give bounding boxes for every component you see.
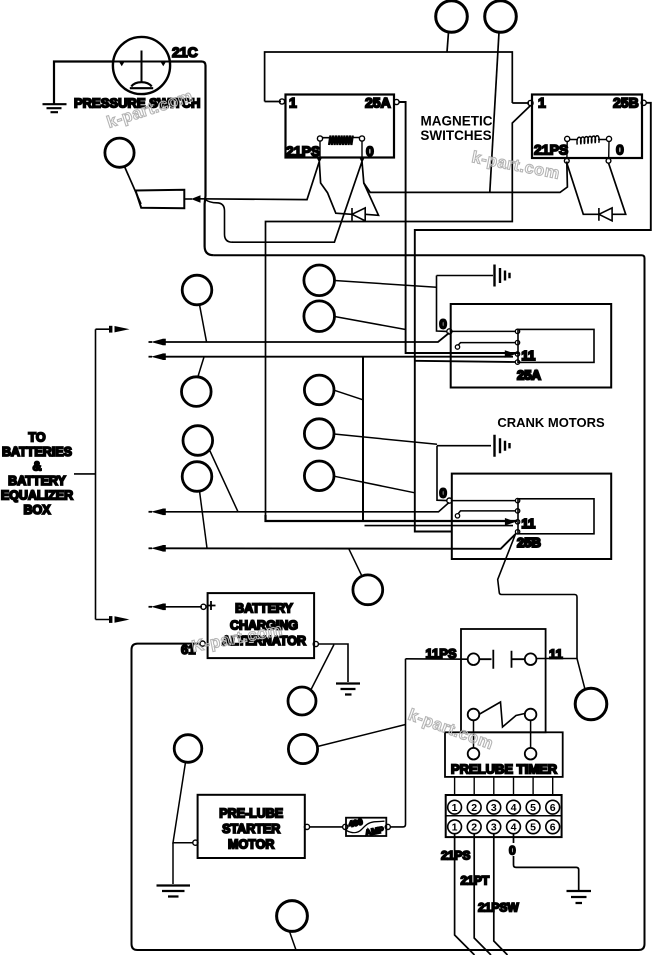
bracket tick to text bbox=[74, 473, 96, 475]
crank motor 25A outer box bbox=[451, 304, 612, 388]
K2 terminal 25B (right) bbox=[641, 100, 646, 105]
wire CQ to boundary bbox=[290, 932, 297, 951]
svg-text:BOX: BOX bbox=[23, 503, 51, 517]
connector circle CP (above motor) bbox=[174, 735, 202, 763]
K2 terminal 1 (left) bbox=[528, 100, 533, 105]
svg-text:1: 1 bbox=[452, 802, 458, 814]
relay lower right pin bbox=[525, 709, 537, 721]
wire M1 to 25A ground junction bbox=[335, 281, 437, 288]
wire M5 to 25B bus bbox=[334, 476, 415, 493]
svg-text:4: 4 bbox=[511, 802, 517, 814]
K1 coil left pin bbox=[317, 136, 322, 141]
connector circle M3 bbox=[304, 375, 334, 405]
engine boundary: top edge y=255, right edge x=644.5, bottom, left edge x=131.5, top wire to alternator bbox=[132, 255, 645, 950]
svg-text:6: 6 bbox=[550, 802, 556, 814]
battery line 1 (to 25A 0) bbox=[163, 333, 449, 342]
wire: motor t2 stub with pin bbox=[458, 511, 515, 514]
battery line 1 arrowhead bbox=[149, 341, 153, 343]
prelube timer box bbox=[445, 732, 563, 777]
svg-text:11: 11 bbox=[522, 348, 536, 363]
wire M3 to x=363 vertical bbox=[334, 390, 363, 400]
svg-text:&: & bbox=[32, 460, 41, 474]
battery line 2 (to 25A 11) bbox=[163, 356, 513, 358]
wire: 0 terminal to motor t1 bbox=[452, 330, 515, 332]
wire: K1 21PS to coil feed bend bbox=[319, 162, 351, 215]
wire L1 to battery line1 bbox=[200, 305, 207, 342]
battery line 2 arrowhead bbox=[149, 356, 153, 358]
wire: diagonal from right switch terminal 1 down to x=512 vertical bbox=[266, 106, 531, 516]
wire L4 to battery line4 bbox=[200, 491, 208, 548]
connector circle C-PS (upper-left) bbox=[105, 138, 134, 167]
svg-text:25A: 25A bbox=[517, 368, 541, 383]
connector circle L4 bbox=[182, 462, 212, 492]
wire: battery line1 diagonal into 0 terminal drawn in SEC2; ground junction vertical bbox=[437, 276, 448, 332]
wire: 0 terminal to motor t1 bbox=[452, 500, 515, 502]
prelube relay box bbox=[461, 629, 546, 732]
wire: C-PS to sender block bbox=[125, 167, 142, 205]
sender block output plug arrow bbox=[191, 195, 201, 202]
wire fuse to 11PS vertical bbox=[390, 659, 405, 827]
wire: T1 down to top bus bbox=[447, 32, 449, 52]
ground G5 (strip) bbox=[567, 891, 592, 903]
svg-text:21PS: 21PS bbox=[441, 849, 470, 863]
pressure switch diaphragm bbox=[130, 82, 153, 88]
wire CB to 11PS vertical bbox=[318, 725, 406, 747]
wire CA to alternator output net bbox=[311, 645, 334, 691]
wire: 25B t4 down to prelube timer 11 contact bbox=[498, 534, 577, 659]
terminal strip mid divider bbox=[446, 815, 562, 817]
wire: drop to right switch terminal 1 bbox=[512, 102, 529, 104]
timer internal pins bbox=[468, 748, 480, 760]
25B motor terminal pins bbox=[515, 498, 519, 502]
wire: T2 slanted down to W192 bbox=[490, 32, 499, 192]
svg-text:5: 5 bbox=[530, 822, 536, 834]
25B motor 0 terminal bbox=[447, 498, 452, 503]
svg-text:25B: 25B bbox=[517, 535, 541, 550]
wire: corner junction diagonal to connector circle CD bbox=[577, 659, 585, 689]
wire: alternator output to ground bbox=[318, 644, 348, 682]
pressure switch left contact dot bbox=[119, 62, 125, 67]
svg-text:4: 4 bbox=[511, 822, 517, 834]
K2 coil left pin bbox=[565, 136, 570, 141]
K2 bottom terminal 0 pin bbox=[606, 158, 611, 163]
crank motor 25B outer box bbox=[452, 474, 611, 559]
timer to strip ticks bbox=[455, 777, 553, 795]
fuse F1 400 AMP bbox=[346, 818, 386, 836]
svg-text:STARTER: STARTER bbox=[222, 822, 280, 836]
magnetic switch K2 box (25B) bbox=[532, 95, 642, 159]
svg-text:11: 11 bbox=[549, 647, 563, 662]
ground G3 (25B crank, sideways) bbox=[495, 435, 510, 457]
SEC1 bbox=[266, 102, 651, 532]
connector circle CQ (bottom) bbox=[277, 901, 308, 932]
K2 bottom terminal 21PS pin bbox=[564, 158, 569, 163]
bracket arrow top bbox=[109, 326, 112, 333]
wire 21C: pressure switch right, down, curve into engine boundary top bbox=[170, 62, 214, 256]
pressure switch right contact dot bbox=[161, 62, 167, 67]
wire: ground feed horizontal bbox=[437, 275, 494, 277]
wire M4 to 25B ground junction bbox=[334, 434, 437, 444]
svg-text:25B: 25B bbox=[613, 95, 639, 111]
SEC4 bbox=[448, 800, 560, 833]
bracket arrow bottom bbox=[109, 616, 112, 623]
diode D2 bbox=[599, 208, 612, 221]
battery line 3 (to 25B 0) bbox=[163, 503, 449, 512]
svg-text:2: 2 bbox=[471, 822, 477, 834]
svg-text:BATTERY: BATTERY bbox=[8, 474, 66, 488]
motor left terminal bbox=[193, 840, 198, 845]
wire: D2 right to K2 0 diagonal bbox=[609, 163, 626, 214]
battery charging alternator box bbox=[208, 593, 315, 658]
battery line 4 arrowhead bbox=[149, 547, 153, 549]
ground junction vertical (25B) bbox=[437, 446, 447, 501]
svg-text:PRELUBE TIMER: PRELUBE TIMER bbox=[451, 762, 558, 777]
K1 bottom terminal 21PS dot bbox=[317, 158, 322, 163]
K1 coil winding bbox=[329, 136, 353, 146]
wire CC up to battery line 4 bbox=[349, 549, 362, 576]
K1 terminal 25A (right) bbox=[394, 99, 399, 104]
wire: K1 0 long diagonal to 21C wire bbox=[232, 162, 362, 243]
battery line 5 (to alternator +) bbox=[163, 606, 202, 608]
connector circle L2 bbox=[182, 377, 212, 407]
svg-text:21PS: 21PS bbox=[534, 142, 568, 158]
connector circle L1 bbox=[182, 275, 212, 305]
svg-text:0: 0 bbox=[440, 486, 447, 501]
svg-text:MAGNETIC: MAGNETIC bbox=[421, 114, 493, 129]
svg-text:0: 0 bbox=[366, 143, 374, 159]
relay contact bars bbox=[479, 650, 525, 669]
svg-text:21C: 21C bbox=[172, 44, 198, 60]
K2 coil right pin bbox=[606, 136, 611, 141]
relay upper contact right pin bbox=[525, 653, 537, 665]
wire 21C branch: curve right then down x=224.5 into y=242.2 line bbox=[205, 200, 233, 243]
svg-text:25A: 25A bbox=[365, 95, 391, 111]
battery line 3 arrowhead bbox=[149, 511, 153, 513]
wire 21PSW from strip terminal 3 bbox=[494, 833, 508, 955]
timer pin links bbox=[474, 720, 531, 748]
wire: D1 right to K1 0 drop bbox=[362, 162, 379, 216]
connector circle CC (to battery line4) bbox=[353, 575, 383, 605]
25A motor 0 terminal bbox=[447, 329, 452, 334]
wire: pressure switch left to ground bbox=[54, 62, 113, 104]
svg-text:EQUALIZER: EQUALIZER bbox=[1, 489, 73, 503]
svg-text:CRANK MOTORS: CRANK MOTORS bbox=[497, 415, 605, 430]
alternator plus sign bbox=[207, 601, 216, 610]
wire L2 up to battery line2 bbox=[198, 357, 204, 377]
svg-text:TO: TO bbox=[28, 431, 45, 445]
magnetic switch K1 box (25A) bbox=[286, 95, 395, 158]
pre-lube starter motor box bbox=[198, 795, 305, 858]
svg-text:SWITCHES: SWITCHES bbox=[420, 128, 491, 143]
ground G1 (pressure switch) bbox=[43, 104, 67, 112]
wire: drop to left switch terminal 1 bbox=[265, 101, 281, 103]
svg-text:1: 1 bbox=[452, 822, 458, 834]
svg-text:0: 0 bbox=[440, 317, 447, 332]
K2 coil pin drops bbox=[567, 142, 609, 159]
connector circle L3 bbox=[183, 426, 213, 456]
wire: second feed line into 25B 11 bbox=[365, 525, 514, 527]
svg-text:21PSW: 21PSW bbox=[478, 901, 519, 915]
svg-text:21PT: 21PT bbox=[461, 874, 490, 888]
svg-text:3: 3 bbox=[491, 802, 497, 814]
battery bracket: vertical with two right-arrows bbox=[95, 329, 97, 619]
bus: K2 25B output right, down, across y=230, down x=414.8 to 25B motor bbox=[415, 103, 651, 532]
svg-text:5: 5 bbox=[530, 802, 536, 814]
K1 bottom terminal 0 dot bbox=[360, 158, 365, 163]
pressure switch S1 body bbox=[113, 37, 170, 94]
connector circle T1 (top) bbox=[436, 1, 468, 33]
connector circle M1 bbox=[304, 265, 335, 296]
wire M2 to 25A bus bbox=[335, 317, 406, 330]
arrowhead into 25B t3 bbox=[505, 518, 516, 526]
K1 coil right pin bbox=[359, 136, 364, 141]
wire: 11PS line from vertical to left contact bbox=[406, 658, 468, 660]
wire junction down to ground bbox=[172, 843, 174, 884]
diode D1 bbox=[352, 208, 365, 221]
alternator right output terminal bbox=[313, 641, 318, 646]
sender block (tilted rectangle) bbox=[136, 190, 185, 208]
wire: vertical x=363 from battery line 2 down to y=521 bbox=[362, 357, 364, 522]
svg-text:PRE-LUBE: PRE-LUBE bbox=[219, 807, 283, 821]
alternator + terminal bbox=[201, 604, 206, 609]
wire: top bus y=52 with drops to both switch inputs bbox=[265, 52, 513, 103]
ground G6 (motor) bbox=[157, 886, 191, 897]
svg-text:BATTERY: BATTERY bbox=[235, 602, 293, 616]
pressure switch internal actuator bbox=[113, 51, 170, 83]
connector circle M5 bbox=[304, 461, 334, 491]
connector circle CA (to alternator output) bbox=[288, 687, 316, 715]
svg-text:MOTOR: MOTOR bbox=[228, 838, 274, 852]
wire: motor t2 stub with pin bbox=[458, 343, 515, 345]
svg-text:BATTERIES: BATTERIES bbox=[2, 445, 72, 459]
svg-text:6: 6 bbox=[550, 822, 556, 834]
wire motor right to fuse bbox=[310, 826, 343, 828]
terminal strip box bbox=[446, 795, 562, 837]
svg-text:21PS: 21PS bbox=[286, 143, 320, 159]
crank motor 25B inner body bbox=[518, 499, 594, 534]
connector circle CB (to 11PS vertical) bbox=[288, 734, 317, 763]
svg-text:2: 2 bbox=[471, 802, 477, 814]
wire 21PS from strip terminal 1 bbox=[455, 833, 475, 955]
connector circle M2 bbox=[304, 301, 335, 332]
svg-text:1: 1 bbox=[289, 95, 297, 111]
wire CP down to motor terminal junction bbox=[173, 762, 193, 843]
alternator 61 terminal (bottom-left) bbox=[200, 641, 205, 646]
battery line 4 (to 25B 11 lower) bbox=[163, 534, 516, 549]
arrowhead into 25A t3 bbox=[505, 350, 516, 358]
25A motor terminal pins bbox=[515, 329, 519, 333]
SEC2 bbox=[415, 265, 611, 388]
K1 coil pin drops to bottom edge bbox=[320, 141, 362, 157]
motor right terminal bbox=[304, 824, 309, 829]
connector circle M4 bbox=[304, 419, 334, 449]
wire: ground feed horizontal (25B) bbox=[437, 445, 491, 447]
svg-text:0: 0 bbox=[509, 844, 516, 858]
relay upper contact left pin bbox=[468, 653, 480, 665]
svg-text:11: 11 bbox=[522, 516, 536, 531]
K2 coil winding (loops) bbox=[577, 136, 599, 145]
wire 21PT from strip terminal 2 bbox=[474, 833, 491, 955]
svg-text:400: 400 bbox=[348, 816, 364, 829]
K1 terminal 1 (left) bbox=[279, 99, 284, 104]
wire: big loop from x=512 down y=221.5 left x=265.5 down to y=521 into 25B motor 11 bbox=[266, 515, 518, 521]
relay heater zigzag bbox=[479, 702, 525, 727]
connector circle CD (at 11) bbox=[575, 688, 607, 720]
svg-text:3: 3 bbox=[491, 822, 497, 834]
wire L3 to battery line3 bbox=[210, 450, 239, 512]
ground G4 (alternator) bbox=[336, 684, 360, 695]
wire: K2 21PS diagonal to D2 bbox=[567, 163, 599, 214]
bus: K1 25A output down to 25A motor 11 bbox=[399, 102, 519, 353]
wire 0 from strip terminal 4 to ground bbox=[514, 833, 579, 890]
wire: bus x=414.8 corner into 25A t4 bbox=[415, 361, 516, 362]
relay lower left pin bbox=[468, 709, 480, 721]
crank motor 25A inner body bbox=[518, 329, 594, 362]
svg-text:1: 1 bbox=[538, 95, 546, 111]
wire: sender block to left coil 21PS diagonal bbox=[198, 162, 319, 200]
battery line 5 arrowhead bbox=[149, 606, 153, 608]
wire W192: K1 0 bend to right switch 21PS bbox=[364, 162, 568, 193]
terminal strip numbered circles row 1 and row 2 bbox=[448, 800, 560, 833]
svg-text:0: 0 bbox=[616, 142, 624, 158]
SEC3 bbox=[181, 593, 406, 764]
connector circle T2 (top) bbox=[485, 1, 517, 33]
ground G2 (25A crank, sideways) bbox=[495, 265, 510, 287]
